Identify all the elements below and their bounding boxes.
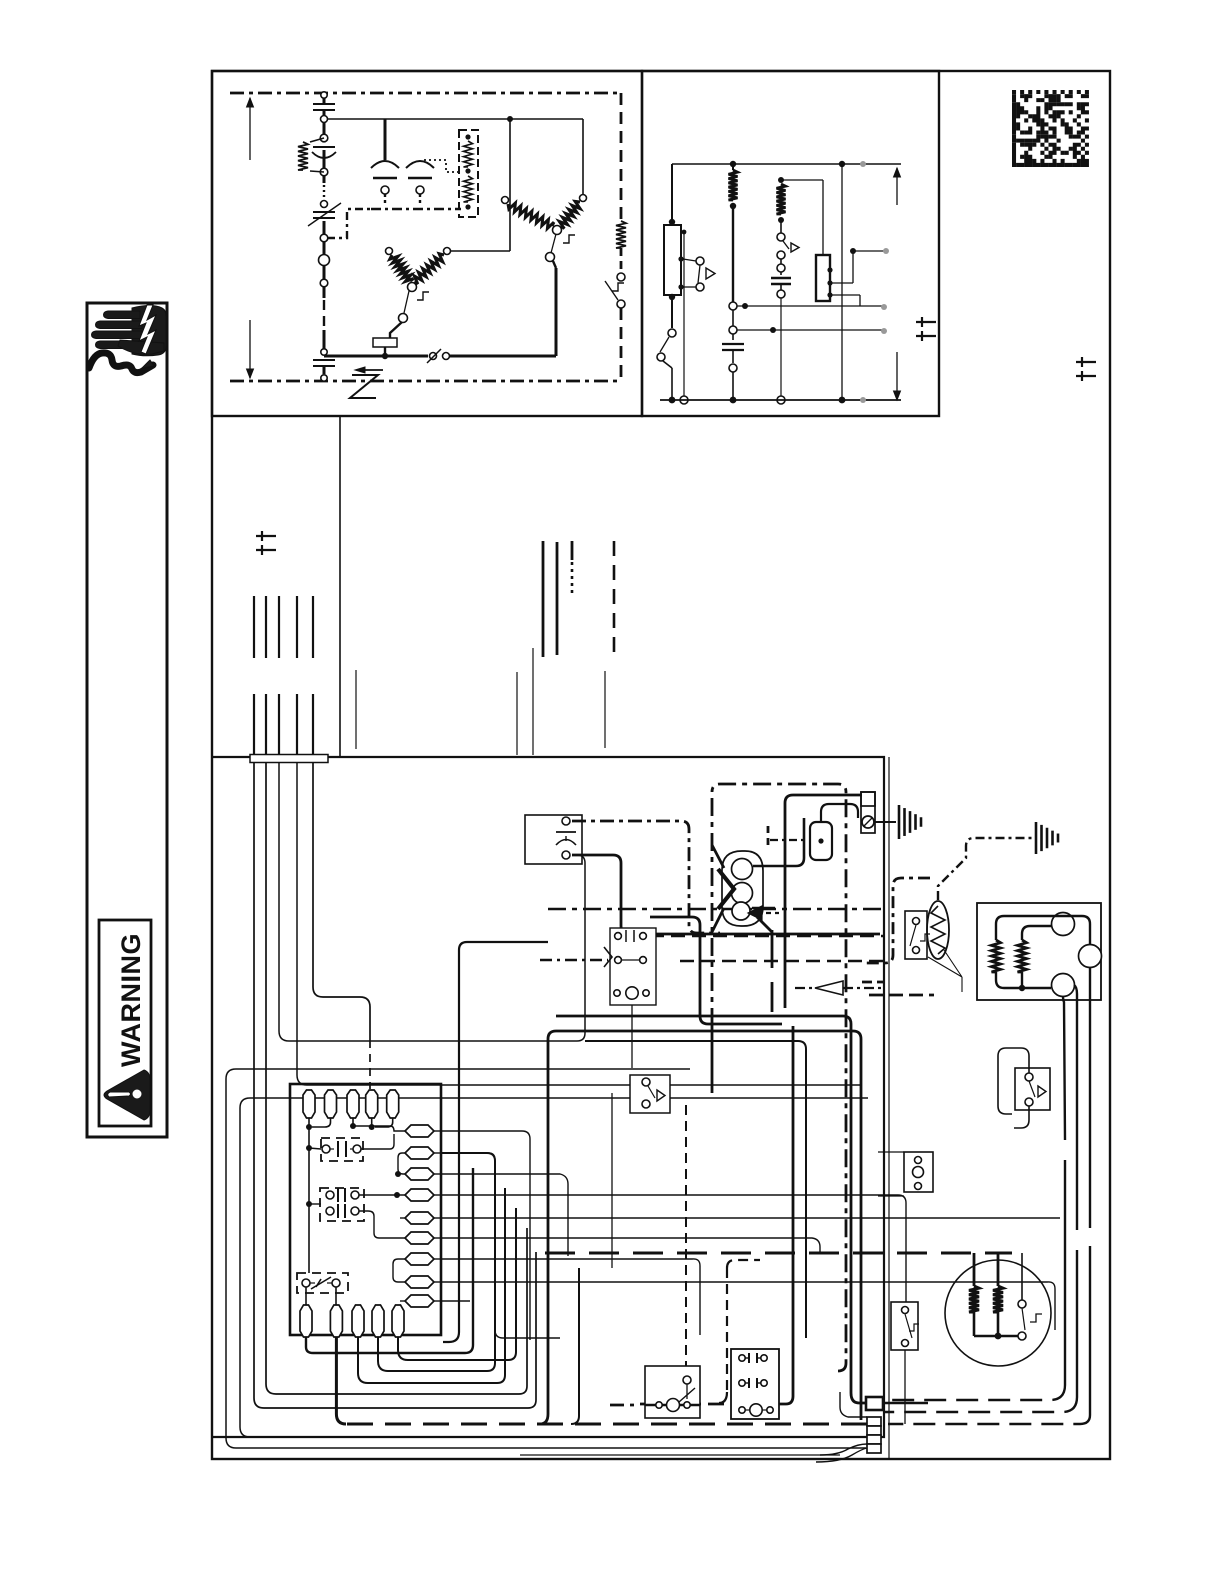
thin vertical line x889 — [888, 757, 890, 1459]
dashed contact box 1 — [321, 1138, 363, 1161]
capacitor plates top — [313, 103, 335, 105]
divider vertical line x340 — [339, 416, 341, 757]
dashed hoop to terminal block — [726, 1268, 728, 1392]
heavy loop via rollout — [540, 1039, 548, 1424]
board fuse (dashed) — [297, 1273, 348, 1293]
boxC top wire — [672, 163, 901, 165]
ground symbol 2 — [1035, 822, 1038, 854]
variable capacitor — [313, 211, 335, 213]
bundle wire 4 (x297) — [297, 762, 860, 1085]
boxC dimension arrows — [896, 168, 898, 205]
ground symbol 1 — [875, 821, 896, 823]
stub wires right — [737, 305, 883, 307]
heavy wire y1026 — [548, 1031, 861, 1420]
vertical x842 — [841, 164, 843, 400]
valve fork diagonals — [712, 845, 724, 868]
connector bar — [250, 755, 328, 763]
dangling wires center — [516, 672, 518, 755]
heavy dash-dot wire y913 — [548, 908, 884, 911]
aux switch box — [891, 1302, 918, 1350]
outer border frame — [212, 71, 1110, 1459]
resistor left branch — [310, 138, 324, 142]
relay capsule — [785, 795, 862, 1008]
wire y119 to cluster — [327, 118, 583, 120]
bundle wire 3 (x279) — [279, 762, 585, 1041]
heavy long-dash feeder y1253 — [545, 1252, 1012, 1255]
boxC bottom rail — [660, 399, 901, 401]
boxC left component column — [671, 164, 673, 224]
control board box — [290, 1084, 441, 1335]
coil branch 1 — [732, 164, 734, 170]
dashed wire y960 right — [680, 960, 884, 962]
heavy wire from cap box bottom — [572, 855, 880, 934]
pressure switch box — [905, 911, 927, 959]
board pad elbows — [353, 1125, 390, 1127]
gas valve outline — [722, 851, 763, 926]
wire y251 link — [450, 250, 510, 252]
bottom thin wire y1453 — [520, 1454, 840, 1456]
warning triangle icon — [104, 1070, 150, 1120]
resistor in right rail — [616, 221, 626, 248]
bundle wire 2 (x266) — [266, 762, 527, 1394]
datamatrix barcode — [1012, 90, 1089, 167]
terminal strip box center — [610, 928, 656, 1005]
dashed wire y960 left — [540, 959, 608, 961]
boxB power rail top (dash-dot) — [230, 92, 621, 95]
big terminal circle — [319, 255, 330, 266]
heavy dash-dot frame around pressure switch — [866, 878, 930, 963]
box D wiring — [996, 916, 1090, 944]
board internal bus — [308, 1127, 310, 1204]
dotted link — [424, 160, 459, 172]
dimension arrow bottom — [249, 320, 251, 378]
Y winding cluster 1 — [386, 248, 393, 255]
electric shock hand icon — [89, 305, 166, 373]
connector fan wires — [820, 1444, 867, 1455]
short thin vertical x356 — [355, 670, 357, 749]
corner wire x700 — [650, 917, 782, 1024]
igniter coil ellipse — [927, 901, 949, 959]
relay box upper right — [1015, 1068, 1050, 1110]
pin2 wire heavy long-dash y1424 — [336, 1337, 346, 1424]
dash-dot branch from bus — [327, 209, 371, 238]
pin3 wire y1383 — [358, 1188, 505, 1383]
callout leader lines — [928, 950, 962, 992]
dimension arrow top — [249, 98, 251, 160]
pin5 wire y1360 — [398, 1208, 516, 1360]
coil branch 2 — [778, 177, 784, 183]
board right pads — [405, 1125, 434, 1137]
motor internal wiring — [973, 1312, 976, 1336]
thin vertical x684 — [683, 232, 685, 396]
dashed contact box 2 — [320, 1188, 364, 1221]
pin1 wire heavy y1353 — [306, 1168, 473, 1353]
relay taps — [832, 282, 853, 284]
main wiring box border — [212, 757, 884, 1437]
boxB right rail — [620, 93, 623, 219]
heavy dash-dot wire y209 — [371, 208, 461, 211]
run capacitor pair — [384, 119, 387, 160]
gas valve lever contacts — [678, 256, 683, 261]
top-left schematic box border — [212, 71, 642, 416]
heavy dash-dot wire from cap box top — [572, 821, 720, 933]
boxB power rail bottom (dash-dot) — [230, 380, 621, 383]
dagger symbols mid-right — [916, 321, 936, 323]
connector squares — [866, 1397, 883, 1410]
gas valve arrows — [718, 869, 734, 909]
Z arrow symbol — [358, 369, 383, 371]
gas valve solenoid circles — [732, 859, 753, 880]
dagger symbols left — [256, 535, 276, 537]
dagger symbols far-right — [1076, 361, 1096, 363]
wire bundle upper segments — [253, 596, 255, 658]
wire to Y2 — [582, 119, 584, 194]
left nest wire B — [240, 1098, 868, 1437]
overload arc + plate — [312, 152, 336, 158]
board pin tails — [308, 1118, 310, 1127]
warning strip outer box — [87, 303, 167, 1137]
pin4 wire y1371 — [378, 1153, 495, 1371]
riser x579 — [571, 1268, 579, 1424]
flame sensor holder — [861, 792, 875, 833]
box D circles — [1052, 913, 1075, 936]
igniter top dash wire to ground 2 — [938, 838, 1032, 900]
inner dashed box with resistors — [459, 130, 478, 217]
motor coils — [969, 1286, 979, 1312]
svg-text:WARNING: WARNING — [116, 933, 146, 1067]
left nest wire A — [226, 1069, 866, 1448]
box D border — [977, 903, 1101, 1000]
lever relay box center — [630, 1075, 670, 1113]
vertical x712 solid tail — [711, 1026, 714, 1093]
board top pins — [303, 1090, 315, 1118]
main bus vertical x324 — [323, 93, 326, 103]
valve wires — [753, 818, 804, 866]
fuse symbol bottom — [430, 353, 437, 360]
dashed wire y936 right — [650, 935, 884, 937]
flag arrow symbol — [815, 981, 843, 995]
capacitor box — [525, 815, 582, 864]
right rail switch — [620, 248, 623, 273]
heavy dash vertical x768 — [767, 826, 770, 848]
terminal strip box right — [904, 1152, 933, 1192]
wire y1041 continuation — [585, 1041, 806, 1338]
dashed vertical x686 — [685, 1105, 687, 1366]
rollout switch box — [645, 1366, 700, 1418]
heavy corner wire x459 — [443, 942, 548, 1342]
heavy bottom wire y356 — [324, 355, 428, 358]
capacitor plates bottom — [313, 359, 335, 361]
board bottom pins — [300, 1305, 312, 1337]
big dash-dot loop wire — [712, 784, 846, 1371]
pad wires — [441, 1131, 530, 1340]
motor thermal switch — [1018, 1300, 1026, 1308]
bundle wire 1 (x254) — [254, 762, 536, 1408]
warning inner label box — [99, 920, 151, 1126]
top-middle schematic box border — [642, 71, 939, 416]
heavy dash stubs — [862, 981, 884, 984]
box D coils — [992, 940, 1001, 972]
wire y180 and relay coil — [781, 179, 823, 181]
bundle wire 5 (x313) — [313, 762, 370, 1040]
terminal block — [731, 1349, 779, 1419]
right rail lower — [620, 308, 623, 381]
motor circle — [945, 1260, 1051, 1366]
Y winding cluster 2 — [502, 197, 509, 204]
motor feed wires — [973, 1253, 976, 1286]
box D output verticals — [1063, 996, 1065, 1140]
thin vertical x612 — [611, 1093, 613, 1268]
